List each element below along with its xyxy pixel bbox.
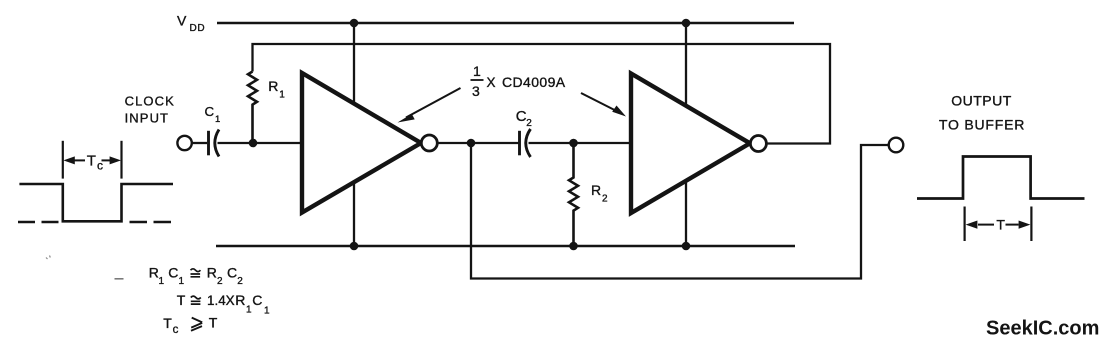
inverter U2 [631,74,750,214]
label C2 [516,108,533,129]
waveform clock dashed baseline left [18,221,60,224]
svg-text:1: 1 [264,306,270,317]
node dot C2 / R2 / U2 input [569,139,578,148]
arrow annotation to U1 [406,88,461,118]
inverter U1 [302,73,421,213]
symbol approx-equal line2 [191,296,201,304]
svg-text:T: T [177,292,186,308]
waveform clock input pulse [19,184,173,221]
wire feedback rail from R1 top to U2 output [253,44,831,144]
svg-text:C: C [205,104,215,119]
dimension arrow T left [978,224,994,226]
svg-text:1: 1 [246,305,252,316]
svg-text:C: C [168,265,178,281]
scan artifact dash [115,278,124,280]
waveform output pulse [917,157,1085,199]
dimension arrow Tc left [72,159,85,161]
label C1 [205,104,221,125]
svg-text:T: T [87,153,96,170]
svg-text:2: 2 [237,276,243,287]
wire C2 to U2 input [529,142,633,144]
svg-text:INPUT: INPUT [125,110,170,125]
wire bottom rail [216,245,795,248]
label Tc [87,153,103,173]
svg-text:T: T [996,217,1005,233]
terminal clock input [177,136,191,150]
svg-text:R: R [268,78,278,94]
svg-text:R: R [207,265,217,281]
capacitor C1 [207,131,210,156]
svg-text:1: 1 [215,114,220,125]
svg-text:R: R [235,292,245,308]
label OUTPUT TO BUFFER [939,93,1025,133]
svg-text:X: X [487,75,496,90]
svg-text:c: c [173,324,179,336]
capacitor C2 [518,131,521,156]
resistor R2 [569,143,578,246]
node junction dot VDD rail / U2 supply [682,19,691,28]
equation R1C1 approx R2C2 [149,265,244,288]
svg-text:c: c [97,159,103,173]
wire VDD top rail [217,22,794,25]
label VDD [177,13,205,35]
dimension line T left bar [963,207,965,242]
svg-text:OUTPUT: OUTPUT [951,93,1012,109]
svg-text:1: 1 [279,89,285,100]
equation T approx 1.4 X R1C1 [177,292,270,317]
wire U1 supply vertical [353,23,355,246]
node dot U1 output / output tap [467,139,476,148]
label CLOCK INPUT [125,93,175,125]
svg-text:R: R [591,182,601,198]
svg-text:SeekIC.com: SeekIC.com [986,318,1099,340]
svg-text:R: R [149,265,159,281]
label T dimension [996,217,1005,233]
svg-text:1.4: 1.4 [207,293,226,308]
svg-text:C: C [516,108,527,125]
wire U2 supply vertical [685,23,687,246]
scan artifact speckles [46,256,50,260]
resistor R1 [248,72,257,144]
label 1/3 X CD4009A [472,63,566,99]
svg-text:C: C [252,292,262,308]
arrow annotation to U2 [581,93,618,112]
waveform clock dashed baseline right [130,221,173,224]
svg-text:C: C [227,265,237,281]
svg-text:2: 2 [526,118,532,129]
dimension arrow Tc right [102,159,113,161]
equation Tc geq T [163,315,218,337]
wire output tap from U1 output node to output terminal [471,143,889,279]
svg-text:TO BUFFER: TO BUFFER [939,116,1025,132]
svg-text:1: 1 [473,63,481,79]
svg-text:CLOCK: CLOCK [125,93,175,108]
dimension arrow T right [1006,224,1019,226]
symbol approx-equal line1 [191,269,201,277]
svg-text:T: T [209,315,218,331]
svg-text:V: V [177,13,187,29]
dimension line Tc left bar [62,141,64,179]
svg-text:1: 1 [159,276,165,287]
svg-text:CD4009A: CD4009A [502,74,566,90]
svg-text:2: 2 [217,276,223,287]
svg-text:2: 2 [602,194,608,205]
terminal output [889,138,904,153]
node junction dot bottom rail / U2 supply [682,242,691,251]
wire input terminal to C1 [192,142,207,144]
label R1 [268,78,285,100]
svg-text:X: X [226,293,235,308]
node junction dot bottom rail / R2 [569,242,578,251]
dimension line T right bar [1030,207,1032,242]
svg-text:1: 1 [179,276,185,287]
svg-text:DD: DD [190,23,206,34]
node dot C1 / R1 / U1 input [249,139,258,148]
wire C1 to U1 input [218,142,304,144]
node junction dot bottom rail / U1 supply [350,242,359,251]
dimension line Tc right bar [120,141,122,179]
symbol greater-or-equal [191,318,202,331]
svg-text:T: T [163,315,172,331]
node junction dot VDD rail / U1 supply [350,19,359,28]
svg-text:3: 3 [472,83,480,99]
wire U1 output to C2 [437,142,519,144]
label R2 [591,182,608,205]
